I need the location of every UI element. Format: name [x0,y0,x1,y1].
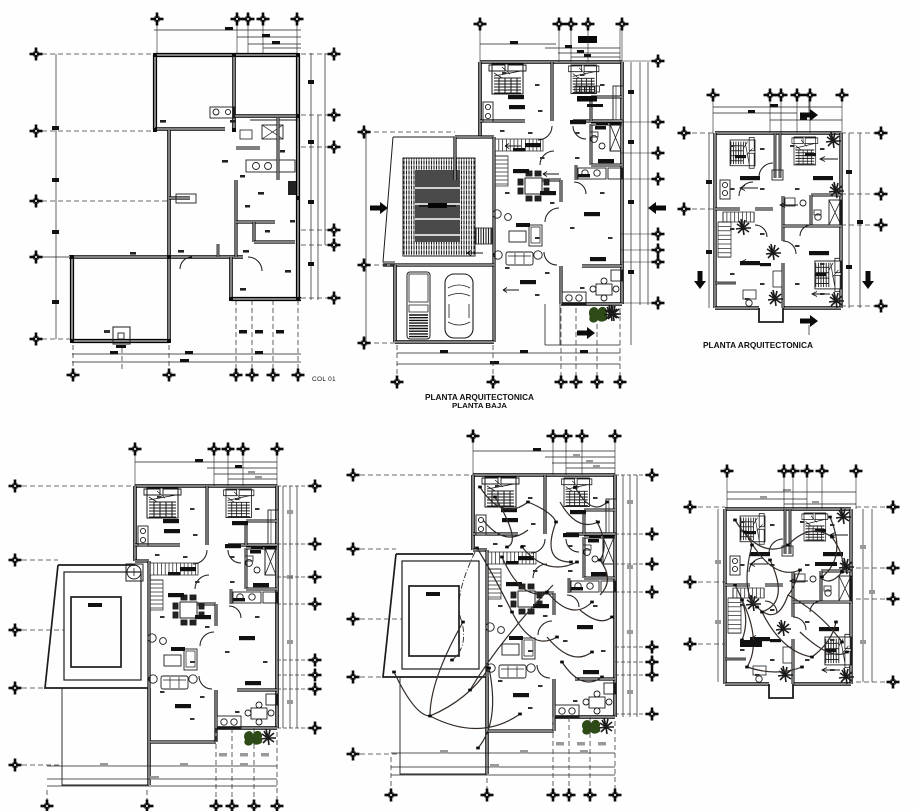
exterior wall right [296,55,300,300]
grid bubble [582,18,595,31]
dimension line [727,498,807,500]
interior arrow [505,144,521,149]
section arrow bottom [577,327,595,339]
grid bubble [309,538,322,551]
dim text [587,104,603,107]
extension line [855,475,857,509]
wall left vestibule [453,137,456,180]
dim text [308,262,314,266]
grid tick line [620,152,652,154]
grid bubble [646,528,659,541]
dimension line [770,119,842,121]
grid bubble [385,789,398,802]
dim text [573,454,580,457]
grid bubble [616,18,629,31]
extension line [156,24,158,53]
dimension line [848,133,850,308]
extension line [253,728,255,800]
dim text [255,351,263,354]
column [70,255,74,259]
dimension line [480,43,556,45]
footing label [116,345,126,348]
grid bubble [563,789,576,802]
extension line [215,728,217,800]
dim text [800,117,807,120]
extension line [296,24,298,53]
grid bubble [652,147,665,160]
extension line [121,348,123,370]
column [232,128,236,132]
dim text [287,575,293,579]
extension line [614,721,616,789]
grid line [42,130,154,132]
grid tick line [620,178,652,180]
section arrow bottom [800,315,818,327]
grid bubble [652,297,665,310]
extension line [614,440,616,475]
extension line [242,453,244,486]
grid tick line [620,60,652,62]
dimension line [647,62,649,305]
exterior wall top [155,53,298,57]
grid line [366,264,395,266]
extension line [146,790,148,800]
dimension line [397,352,620,354]
dim text [440,750,448,753]
house body [473,475,616,755]
extension line [552,440,554,475]
grid bubble [309,722,322,735]
dim text [219,753,227,757]
extension line [231,728,233,800]
garage wall left [393,265,397,342]
extension line [472,440,474,475]
grid tick [277,543,310,545]
dim text [577,50,584,53]
grid bubble [163,369,176,382]
dim text [860,545,866,549]
dimension line [47,778,277,780]
house body [135,486,278,766]
dim text [88,603,102,607]
extension line [841,99,843,133]
grid line [22,629,64,631]
wiring device dots [392,486,614,750]
grid bubble [257,13,270,26]
dimension line [317,115,319,300]
section arrow right [648,202,666,214]
grid tick [615,533,648,535]
grid bubble [678,127,691,140]
grid bubble [678,203,691,216]
dim text [180,359,189,362]
grid bubble [721,465,734,478]
grid line [22,485,135,487]
dim text [628,90,634,94]
grid bubble [652,116,665,129]
grid bubble [30,48,43,61]
boiler [288,181,296,195]
grid bubble [804,89,817,102]
extension line [619,28,621,62]
grid tick [615,713,648,715]
patio outline [400,677,487,774]
dimension line [72,361,301,363]
grid line [42,256,70,258]
pool inner [71,597,121,667]
grid bubble [570,376,583,389]
dimension line [558,52,620,54]
dim text [272,41,280,44]
plant courtyard [589,308,607,323]
extension line [621,24,623,62]
dim text [584,54,591,57]
footing tick [104,330,110,333]
extension line [492,345,494,377]
wiring curves [735,517,847,672]
dimension line [214,473,277,475]
grid line [841,305,876,307]
grid line [301,297,328,299]
dim text [628,200,634,204]
sink bowl [265,163,272,170]
grid line [684,208,715,210]
dimension line [713,112,797,114]
dim text [593,465,600,468]
pool deck outline [383,137,480,262]
grid bubble [151,13,164,26]
grid bubble [646,656,659,669]
extension line [390,757,392,789]
extension line [134,453,136,486]
dimension line [862,509,864,682]
dimension line [713,106,842,108]
dimension line [237,36,301,38]
grid tick [615,563,648,565]
section arrow top [800,109,818,121]
dim text [243,250,249,253]
grid bubble [778,465,791,478]
grid bubble [9,624,22,637]
grid line [690,581,725,583]
svg-text:PLANTA ARQUITECTONICA: PLANTA ARQUITECTONICA [703,340,813,350]
dimension line [263,47,301,49]
living bottom wall [488,729,554,732]
extension line [568,717,570,789]
grid bubble [787,465,800,478]
grid tick [277,603,310,605]
closet hanger grid [575,86,599,92]
living bottom wall [150,740,216,743]
grid line [301,244,328,246]
column [296,53,300,57]
extension line [272,300,274,370]
extension line [213,453,215,486]
exterior wall left upper [153,55,157,130]
grid line [301,114,328,116]
grid bubble [358,126,371,139]
toilet tank [240,130,252,139]
extension line [712,99,714,133]
dim text [100,763,108,766]
dimension line [630,62,632,345]
electrical wiring curves [394,487,612,748]
section arrow right [862,271,874,289]
extension line [589,717,591,789]
dim text [290,220,295,223]
grid bubble [555,376,568,389]
dimension line [228,478,277,480]
dim text [440,350,448,353]
grid tick line [620,249,652,251]
grid line [690,643,725,645]
dim text [230,120,236,123]
bath wall [254,240,295,243]
pool water dark [415,170,460,242]
grid bubble [309,480,322,493]
grid bubble [467,430,480,443]
dim text [783,489,791,492]
interior wall room B bottom [235,114,298,118]
grid line [360,548,396,550]
grid bubble [652,256,665,269]
grid tick [277,727,310,729]
extension line [619,308,621,377]
dim text [245,205,250,208]
grid line [690,506,725,508]
extension line [168,345,170,370]
bath wall [236,220,275,223]
dim text [578,36,597,43]
grid bubble [707,89,720,102]
patio outline [62,688,149,785]
grid bubble [391,376,404,389]
dimension line [154,29,301,31]
bath wall vertical [234,180,237,257]
grid bubble [30,195,43,208]
section arrow left [370,202,388,214]
grid bubble [547,430,560,443]
extension line [558,28,560,62]
shelf line [250,119,298,121]
sink [225,109,230,114]
dimension line [47,785,277,787]
dim text [628,270,634,274]
grid line [360,753,400,755]
dim text [258,192,264,195]
grid bubble [646,669,659,682]
dim text [748,110,755,113]
grid bubble [816,465,829,478]
dim text [261,753,269,757]
dim text [846,170,852,174]
pool hatch [403,158,475,256]
dimension line [717,509,719,682]
grid bubble [646,708,659,721]
grid line [366,131,455,133]
dimension line [310,53,312,300]
grid bubble [328,109,341,122]
grid bubble [609,430,622,443]
dim text [285,270,291,273]
dimension line [545,456,615,458]
tub cross [262,125,283,139]
dim text [760,496,767,499]
extension line [575,308,577,377]
extension line [769,99,771,133]
door arc room C [248,257,262,271]
grid line [856,681,888,683]
grid line [22,687,45,689]
grid bubble [576,430,589,443]
plan 4: furnished ground plan [9,443,322,811]
extension line [297,300,299,370]
dim text [740,640,762,647]
grid bubble [684,638,697,651]
grid bubble [271,800,284,811]
wall stub [214,728,217,742]
dim text [280,150,285,153]
grid bubble [887,501,900,514]
grid bubble [309,669,322,682]
sink bowl [253,163,260,170]
house body [480,62,623,342]
dim text [239,330,247,334]
dimension line [552,462,615,464]
dim text [715,620,721,624]
dimension line [622,475,624,717]
terrace steps [545,304,620,345]
grid line [856,506,888,508]
grid tick [277,485,310,487]
pool inner [409,586,459,656]
grid bubble [652,228,665,241]
grid bubble [9,554,22,567]
dim text [255,330,263,334]
grid bubble [347,543,360,556]
grid line [301,53,328,55]
column [70,339,74,343]
dimension line [207,467,277,469]
dim text [860,640,866,644]
grid bubble [764,89,777,102]
grid bubble [246,369,259,382]
extension line [821,475,823,509]
column footing symbol [113,327,130,344]
grid bubble [591,376,604,389]
extension line [247,24,249,53]
grid bubble [646,558,659,571]
dim text [598,742,606,746]
grid line [301,146,328,148]
dimension line left [365,132,367,343]
extension line [235,300,237,370]
wall stub [217,244,220,257]
grid line [360,676,383,678]
plan 6: electrical plan upper floor [684,465,900,699]
dim text [627,690,633,694]
grid bubble [292,369,305,382]
grid tick [615,646,648,648]
room C wall left [229,257,233,299]
dim text [222,160,228,163]
grid bubble [291,13,304,26]
extension line [396,345,398,377]
extension line [552,717,554,789]
dim text [533,448,541,451]
grid bubble [328,48,341,61]
grid bubble [801,465,814,478]
column [232,53,236,57]
dim text [276,330,284,334]
grid bubble [358,259,371,272]
extension line [780,99,782,133]
extension line [276,453,278,486]
grid tick line [620,261,652,263]
dim text [815,562,837,566]
grid bubble [328,224,341,237]
dim text [580,350,588,353]
toilet [213,109,219,115]
dim text [185,351,193,354]
svg-text:PLANTA BAJA: PLANTA BAJA [452,401,508,410]
dimension line [629,475,631,717]
grid tick line [620,302,652,304]
plan 1: structural floor plan [30,13,341,384]
dim text [520,750,528,753]
grid bubble [9,480,22,493]
extension line [46,790,48,800]
grid bubble [646,469,659,482]
dim text [577,96,597,102]
car pickup [407,272,430,339]
dim text [490,361,499,364]
grid line [301,229,328,231]
dimension line [72,353,301,355]
grid line [360,474,473,476]
grid bubble [230,369,243,382]
interior wall main horizontal [69,255,243,259]
pool deck outline [383,554,486,677]
dim text [510,41,518,44]
extension line [486,778,488,789]
interior wall center vertical [167,130,171,341]
room C wall bottom [231,297,301,301]
patio wall right [485,677,488,774]
grid bubble [487,376,500,389]
grid bubble [887,676,900,689]
extension line [587,28,589,62]
extension line [262,24,264,53]
wall stub right [277,118,280,180]
dim text [240,288,246,291]
kitchen counter [246,160,295,172]
dim text [240,753,248,757]
dim text [627,500,633,504]
grid bubble [237,443,250,456]
grid line [42,338,72,340]
column [296,196,300,200]
column [167,339,171,343]
extension line [276,732,278,800]
grid bubble [222,443,235,456]
extension line [783,475,785,509]
pool mid outline [64,572,141,680]
dim text [577,742,585,746]
dim text [426,592,440,596]
grid bubble [646,586,659,599]
dim text [110,351,118,354]
